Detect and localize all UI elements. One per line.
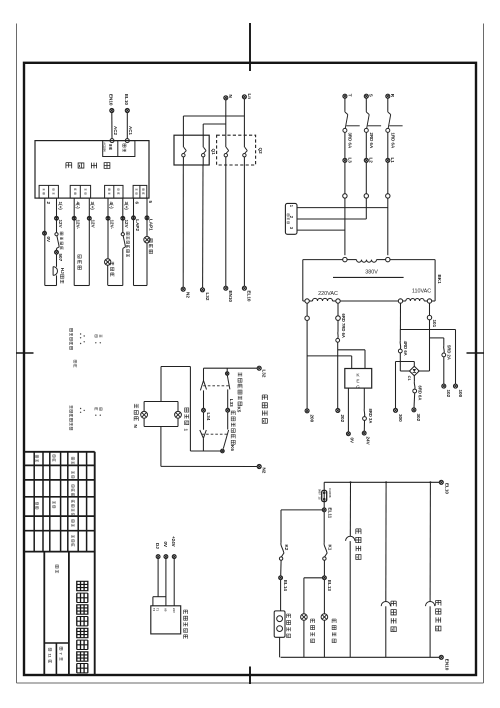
centering tick top xyxy=(249,23,251,71)
pin AC2 xyxy=(110,126,118,143)
svg-text:Q1: Q1 xyxy=(211,149,216,156)
wire lamp top bus xyxy=(144,401,178,403)
svg-text:7: 7 xyxy=(59,653,63,655)
switch lighting control xyxy=(121,233,125,286)
svg-text:1: 1 xyxy=(183,429,188,432)
wire lamps to N2 line xyxy=(160,427,162,467)
label pit socket (hanzi) xyxy=(391,601,396,632)
output sub-box 2 xyxy=(70,185,90,198)
lamp hoistway 1 xyxy=(175,402,182,427)
svg-text:8RD 3A: 8RD 3A xyxy=(368,409,373,424)
svg-text:K2: K2 xyxy=(284,545,289,551)
thin outer frame right xyxy=(483,24,485,684)
label machine room socket (hanzi) xyxy=(356,529,361,559)
wire KEG out via fuse 8RD 3A to node 24V xyxy=(362,388,373,446)
svg-text:0V: 0V xyxy=(350,438,355,445)
svg-text:BK1: BK1 xyxy=(437,275,442,285)
svg-text:6RD 6A: 6RD 6A xyxy=(418,386,423,401)
wire 0V into controller xyxy=(165,559,167,606)
svg-text:+24V: +24V xyxy=(171,536,176,547)
centering tick bottom xyxy=(249,667,251,685)
svg-text:507: 507 xyxy=(58,254,63,262)
svg-text:G: G xyxy=(356,384,360,390)
node Ln mains live xyxy=(242,94,251,100)
svg-text:12V-: 12V- xyxy=(109,220,114,230)
svg-text:LAP2: LAP2 xyxy=(135,219,140,231)
fuse 4RD 6A xyxy=(398,330,408,356)
svg-text:T: T xyxy=(347,94,352,97)
node EN10 (220V lighting return) xyxy=(439,655,449,670)
svg-text:AC2: AC2 xyxy=(113,126,118,135)
svg-text:K1: K1 xyxy=(327,545,332,551)
wire tap to fuse 5RD 2A and node 102 xyxy=(430,338,452,398)
svg-text:N2: N2 xyxy=(186,292,191,298)
wire rail L34 xyxy=(202,390,211,429)
wire tap L1 to terminal block xyxy=(297,207,388,209)
svg-text:102: 102 xyxy=(446,390,451,398)
svg-text:EN10: EN10 xyxy=(444,659,449,671)
svg-text:EL10: EL10 xyxy=(247,291,252,302)
wire 110VAC left + rail to 100 xyxy=(400,303,463,397)
svg-text:C1: C1 xyxy=(407,376,412,382)
wire KEG input A from 200 line xyxy=(307,356,352,369)
svg-text:L33: L33 xyxy=(229,399,234,407)
svg-text:4(-): 4(-) xyxy=(109,202,114,210)
svg-text:12V: 12V xyxy=(91,220,96,229)
wire loop bottom pair1 xyxy=(45,285,57,287)
thin outer frame left xyxy=(16,24,18,684)
wire bridge DC+ to node 300 xyxy=(394,362,415,423)
wire 101 rail xyxy=(418,303,437,371)
bell HJ xyxy=(53,254,65,285)
svg-text:EN10: EN10 xyxy=(228,291,233,303)
socket pit xyxy=(381,482,390,657)
wire pin4(-) 12V- intercom leg A xyxy=(72,198,80,285)
label hoistway lamp 1 xyxy=(183,408,188,432)
svg-text:E: E xyxy=(356,378,359,384)
svg-text:12V: 12V xyxy=(58,220,63,229)
svg-text:A0: A0 xyxy=(164,608,168,612)
wire tap L2 to terminal block xyxy=(297,218,366,220)
svg-text:6: 6 xyxy=(135,202,140,205)
emergency lighting power unit box xyxy=(35,141,149,199)
wire Q1 pole1 to node N2 xyxy=(181,165,190,298)
switch Q2 pole2 xyxy=(243,147,248,165)
fuse-switch 3RD xyxy=(343,98,360,149)
label intercom (hanzi) xyxy=(78,255,82,270)
note block 3 (hanzi) xyxy=(70,405,102,429)
wire 220VAC left to node 200 xyxy=(305,303,315,422)
svg-text:11: 11 xyxy=(47,654,51,658)
note block 2 (hanzi) xyxy=(74,360,77,367)
bridge rectifier C1 xyxy=(407,366,419,381)
label emergency lamp (hanzi) xyxy=(149,239,153,254)
node 0V ctrl xyxy=(163,542,168,559)
wire tap L3 to terminal block xyxy=(297,229,345,231)
wire bridge DC- via fuse 6RD 6A to node 302 xyxy=(412,376,423,422)
connector L1 xyxy=(386,162,390,198)
label car lighting A (hanzi) xyxy=(311,619,315,643)
svg-text:1RD 6A: 1RD 6A xyxy=(391,133,396,149)
transformer BK1 outline and windings xyxy=(303,257,435,303)
linkage K6 (dashed) xyxy=(202,433,228,435)
wire EN10 to AC2 xyxy=(111,113,113,139)
wire Q2 pole1 to node EN10 xyxy=(224,165,233,302)
label car lighting B (hanzi) xyxy=(332,619,336,643)
wire KEG out to node 0V xyxy=(347,388,355,444)
wire pin5 LAP1 emergency lamp xyxy=(144,198,154,285)
svg-text:4(-): 4(-) xyxy=(75,202,80,210)
input sub-box AC220V xyxy=(103,141,135,157)
breaker Q2 box (dashed) xyxy=(217,135,263,165)
socket machine room xyxy=(346,482,355,657)
wire DJ jog into controller xyxy=(153,559,166,606)
svg-text:200: 200 xyxy=(310,415,315,423)
wire Q2 pole2 to node EL10 xyxy=(242,165,251,302)
breaker Q1 box xyxy=(174,135,216,165)
wire lamp bottom bus xyxy=(144,426,178,428)
svg-text:AC220V: AC220V xyxy=(103,142,107,152)
svg-text:300: 300 xyxy=(398,414,403,422)
terminal block X1 (3 pins) xyxy=(285,203,297,234)
svg-text:EL11: EL11 xyxy=(328,508,333,519)
wire pin3(+) 12V intercom leg B xyxy=(87,198,95,285)
node L2 xyxy=(364,132,373,163)
wire rail L33 xyxy=(226,389,234,429)
fuse-switch 1RD xyxy=(386,98,403,149)
svg-text:0V: 0V xyxy=(46,237,51,244)
svg-text:T1: T1 xyxy=(156,608,160,612)
svg-text:EL13: EL13 xyxy=(327,580,332,591)
title block row header texts (hanzi) xyxy=(72,457,75,546)
wire pin6 LAP2 xyxy=(132,198,140,285)
fuse-switch 2RD xyxy=(364,98,381,149)
socket car top xyxy=(426,482,435,657)
svg-text:4RD 6A: 4RD 6A xyxy=(403,341,408,356)
node L32 (hoistway feed) xyxy=(257,366,266,378)
label K6 (hanzi) xyxy=(230,411,235,451)
wire 4RD to bridge AC left xyxy=(400,353,410,371)
svg-text:0907: 0907 xyxy=(318,489,322,495)
wire Ln jog to Q1 pole1 xyxy=(183,99,244,147)
thick drawing border xyxy=(24,63,476,675)
label hoistway lighting section (hanzi) xyxy=(262,395,267,423)
rectifier module KEG xyxy=(345,369,372,391)
svg-text:L32: L32 xyxy=(261,370,266,378)
node DJ xyxy=(155,543,160,558)
switch Q1 pole1 xyxy=(182,147,187,165)
output sub-box 1 xyxy=(39,185,58,198)
switch Q1 pole2 xyxy=(202,147,207,165)
wire N2 line xyxy=(161,465,257,467)
svg-text:T2: T2 xyxy=(152,608,156,612)
connector L2 xyxy=(364,162,368,198)
node EL14 xyxy=(279,560,288,591)
centering tick right xyxy=(467,352,485,354)
linkage K5 (dashed) xyxy=(203,385,230,387)
note block 1 (hanzi) xyxy=(70,328,102,349)
wire L32 to K5 xyxy=(204,367,258,369)
svg-text:6RD 7RD 6A: 6RD 7RD 6A xyxy=(341,314,346,338)
switch K6 pole left xyxy=(200,430,207,451)
svg-text:0V: 0V xyxy=(163,542,168,548)
label car top socket (hanzi) xyxy=(436,600,441,631)
svg-text:EL10: EL10 xyxy=(444,483,449,494)
switch Q2 pole1 xyxy=(224,147,229,165)
svg-text:380V: 380V xyxy=(365,270,378,276)
label drawing number (hanzi) xyxy=(55,565,58,573)
fuse car lighting (box) + node EL11 xyxy=(318,482,333,518)
node EL13 xyxy=(323,560,333,591)
switch K5 pole left xyxy=(200,368,206,390)
lamp lighting-lamp xyxy=(105,259,114,286)
svg-text:LAP1: LAP1 xyxy=(148,219,153,231)
svg-text:1S: 1S xyxy=(318,497,322,500)
svg-text:Ln: Ln xyxy=(247,94,252,100)
svg-text:2RD 6A: 2RD 6A xyxy=(369,133,374,149)
node N2 (hoistway return) xyxy=(257,465,266,474)
lamp car lighting B xyxy=(321,580,328,658)
svg-text:101: 101 xyxy=(432,320,437,328)
svg-text:24V: 24V xyxy=(366,437,371,446)
wire pin2 / 0V xyxy=(43,198,51,285)
svg-text:5: 5 xyxy=(148,201,153,204)
svg-text:EL10: EL10 xyxy=(124,94,129,105)
fan car (box with circles) xyxy=(274,580,285,658)
svg-text:220VAC: 220VAC xyxy=(318,291,338,297)
node N mains neutral xyxy=(224,95,233,100)
node EL10 (emergency supply input) xyxy=(124,94,129,113)
node T phase input xyxy=(343,94,352,98)
connector L3 xyxy=(343,162,347,198)
node K6 common xyxy=(190,449,224,453)
svg-text:3(+): 3(+) xyxy=(124,202,129,211)
svg-text:100: 100 xyxy=(458,390,463,398)
svg-text:N2: N2 xyxy=(261,468,266,474)
wire EL10 to AC1 xyxy=(126,113,128,139)
svg-text:1(+): 1(+) xyxy=(58,202,63,211)
svg-text:K6: K6 xyxy=(230,445,235,451)
centering tick left xyxy=(16,352,34,354)
wire Ln down into Q2 pole2 xyxy=(243,116,245,147)
switch alarm button xyxy=(55,233,59,249)
svg-text:DJ: DJ xyxy=(155,543,160,549)
svg-text:EN10: EN10 xyxy=(109,94,114,106)
node L3 xyxy=(343,132,352,163)
title text: elevator power control circuit (hanzi) xyxy=(77,581,88,673)
node 507 xyxy=(55,248,63,261)
wire pin3(+) 12V lamp switch leg xyxy=(121,198,129,233)
wire pin4(-) 12V- lamp leg xyxy=(106,198,114,259)
svg-text:AC1: AC1 xyxy=(128,126,133,135)
svg-text:3(+): 3(+) xyxy=(90,202,95,211)
wire pin1(+) 12V alarm-button 507 bell HJ xyxy=(55,198,63,232)
svg-text:12V: 12V xyxy=(124,220,129,229)
pin AC1 xyxy=(125,126,133,143)
svg-text:L1: L1 xyxy=(390,158,395,164)
lamp hoistway N xyxy=(141,402,148,427)
output sub-box 4 xyxy=(133,185,147,198)
switch K2 xyxy=(279,543,289,560)
lamp car lighting A xyxy=(301,614,308,658)
wire N jog to Q1 pole2 xyxy=(203,100,226,147)
svg-text:Q2: Q2 xyxy=(258,148,263,155)
switch K1 xyxy=(323,512,333,561)
node R phase input xyxy=(386,94,395,98)
svg-text:110VAC: 110VAC xyxy=(412,289,431,295)
svg-text:3RD 6A: 3RD 6A xyxy=(348,133,353,149)
wire loop bottom pair4 xyxy=(134,285,148,287)
svg-text:202: 202 xyxy=(340,415,345,423)
thin outer frame bottom xyxy=(17,682,484,684)
svg-text:L32: L32 xyxy=(205,293,210,301)
switch K5 pole right (common) xyxy=(226,368,230,389)
label page number cell xyxy=(59,647,63,661)
svg-text:L3: L3 xyxy=(347,158,352,164)
svg-text:L34: L34 xyxy=(206,413,211,421)
label hoistway lamp N xyxy=(133,404,138,429)
title block cell texts row1/row4 (hanzi) xyxy=(36,455,56,509)
svg-text:12V-: 12V- xyxy=(76,220,81,230)
label car fan (hanzi) xyxy=(287,614,291,638)
wire L2 down to tap xyxy=(365,198,367,219)
title block grid xyxy=(24,452,95,675)
wire 220VAC right via fuse 6RD/7RD to node 202 xyxy=(336,303,346,422)
wire 220V top bus xyxy=(324,481,439,483)
node EN10 (emergency supply input) xyxy=(109,94,114,113)
wire 220V bottom bus xyxy=(281,656,440,658)
label pages total cell xyxy=(47,648,51,663)
wire KEG input B from 202 line xyxy=(338,350,365,369)
wire loop bottom pair3 xyxy=(108,285,123,287)
label elevator controller (hanzi) xyxy=(184,610,188,639)
svg-text:HJ: HJ xyxy=(60,268,65,274)
svg-text:K5: K5 xyxy=(237,407,242,413)
svg-text:24V: 24V xyxy=(172,608,176,613)
svg-text:5RD 2A: 5RD 2A xyxy=(447,345,452,360)
node L1 xyxy=(386,132,395,163)
svg-text:CAR06: CAR06 xyxy=(328,488,332,498)
wire L3 down to transformer xyxy=(344,198,346,255)
label K5 (hanzi) xyxy=(237,373,242,413)
wire loop bottom pair2 xyxy=(74,285,89,287)
wire K6 common feed to lamps xyxy=(161,367,190,452)
wire EL11 jog to K2 xyxy=(281,510,322,543)
label lighting control switch (hanzi) xyxy=(126,232,129,257)
node EL10 (220V lighting feed) xyxy=(439,480,449,494)
node S phase input xyxy=(364,94,373,98)
wire L1 down to transformer xyxy=(387,198,389,255)
label alarm button (hanzi) xyxy=(60,232,63,250)
node +24V ctrl xyxy=(171,536,176,558)
switch K6 pole right (common) xyxy=(223,430,228,449)
svg-text:2: 2 xyxy=(46,202,51,205)
label emergency-lighting (vertical hanzi in box) xyxy=(66,163,110,169)
svg-text:S: S xyxy=(369,94,374,97)
wire +24V into controller xyxy=(173,559,175,606)
wire N down into Q2 pole1 xyxy=(225,124,227,147)
svg-text:EL14: EL14 xyxy=(283,580,288,591)
svg-text:L2: L2 xyxy=(369,158,374,164)
wire EL13 jog to car lamp A xyxy=(304,578,322,614)
controller box xyxy=(151,606,181,634)
svg-text:302: 302 xyxy=(416,414,421,422)
output sub-box 3 xyxy=(105,185,123,198)
wire Q1 pole2 to node L32 xyxy=(201,165,210,301)
